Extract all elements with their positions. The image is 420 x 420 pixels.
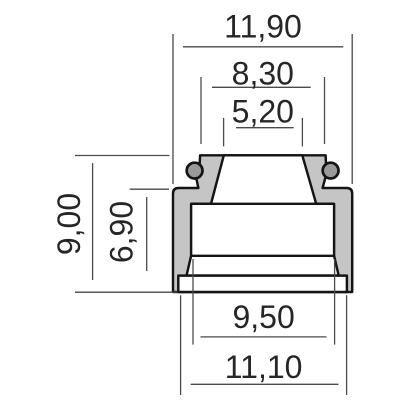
dimension 9,00: extension line top — [75, 155, 169, 157]
dimension 5,20: extension line right — [301, 118, 303, 146]
bore step line (top of counterbore) — [191, 203, 334, 205]
dimension 8,30: extension line left — [200, 77, 202, 144]
dimension 11,90: dimension line — [183, 46, 343, 48]
dimension 8,30: dimension line — [212, 86, 311, 88]
svg-text:8,30: 8,30 — [232, 55, 294, 91]
dimension 5,20: dimension line — [236, 127, 294, 129]
svg-text:5,20: 5,20 — [232, 94, 294, 130]
garter spring left (circle) — [187, 163, 203, 179]
bottom metal flange (white rectangle) — [178, 276, 347, 292]
counterbore chamfer start line — [191, 255, 334, 257]
dimension 8,30: extension line right — [324, 77, 326, 144]
svg-text:11,90: 11,90 — [224, 9, 302, 45]
dimension 11,90: extension line right — [351, 34, 353, 184]
garter spring right (circle) — [323, 163, 339, 179]
svg-text:11,10: 11,10 — [225, 349, 303, 385]
dimension 11,10: extension line right — [346, 295, 348, 395]
dimension 6,90: dimension line — [146, 197, 148, 271]
dimension 11,90: extension line left — [172, 34, 174, 184]
svg-text:9,50: 9,50 — [232, 299, 294, 335]
dimension 9,50: extension line right — [334, 259, 336, 345]
inner bore cavity (white cutout with cone, counterbore and chamfers) — [187, 155, 339, 275]
dimension 9,00: extension line bottom — [75, 291, 178, 293]
svg-text:9,00: 9,00 — [51, 193, 87, 255]
dimension 9,50: extension line left — [192, 259, 194, 345]
svg-text:6,90: 6,90 — [103, 201, 139, 263]
dimension 11,10: extension line left — [180, 295, 182, 395]
dimension 11,10: dimension line — [191, 383, 339, 385]
dimension 9,00: dimension line — [92, 163, 94, 280]
seal rubber body (gray cross-section silhouette) — [173, 155, 352, 292]
dimension 9,50: dimension line — [201, 336, 327, 338]
dimension 5,20: extension line left — [223, 118, 225, 146]
dimension 6,90: extension line top — [130, 188, 169, 190]
